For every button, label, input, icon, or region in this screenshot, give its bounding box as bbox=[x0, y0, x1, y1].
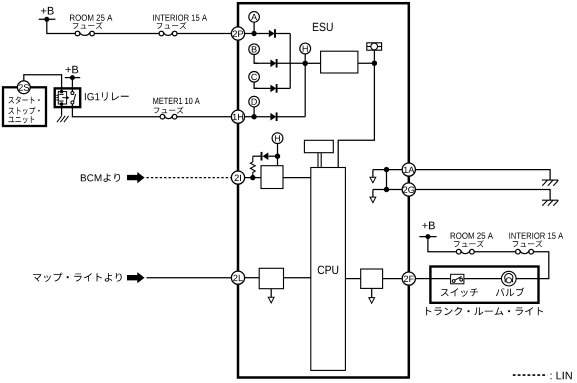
wire junction to input box bbox=[277, 156, 279, 166]
junction 1A/2G bbox=[384, 167, 389, 172]
input box (2I) bbox=[261, 166, 283, 189]
wire A stem bbox=[253, 22, 255, 31]
diode (to node H) bbox=[253, 152, 278, 161]
output box (2F) bbox=[361, 269, 383, 288]
connector 2I bbox=[231, 171, 244, 184]
wire H stem to junction bbox=[277, 144, 279, 157]
arrow to ground (1A row) bbox=[370, 170, 376, 183]
wire junction vertical bbox=[386, 170, 388, 190]
node C bbox=[249, 72, 260, 83]
start-stop unit box bbox=[3, 87, 46, 126]
relay IG1 contact bbox=[71, 92, 76, 105]
label BCM source bbox=[81, 173, 120, 181]
diode C bbox=[254, 84, 290, 93]
wire B stem bbox=[254, 55, 258, 64]
connector 1H bbox=[231, 110, 244, 123]
wire 2G to ground bbox=[415, 190, 550, 201]
wire 2G row (inside) bbox=[373, 189, 402, 191]
junction 2I node bbox=[250, 175, 255, 180]
power +B (IG1 relay) bbox=[65, 66, 80, 80]
junction below node H bbox=[275, 154, 280, 159]
wire 2I to junction bbox=[245, 177, 253, 179]
wire fuse METER1 to connector 1H bbox=[177, 116, 232, 118]
relay IG1 box bbox=[55, 88, 80, 107]
diode B bbox=[254, 59, 305, 68]
driver box (top) bbox=[321, 51, 358, 73]
wire junction H to driver box bbox=[305, 62, 320, 64]
wire output box to 2F bbox=[383, 278, 403, 280]
arrow from map light bbox=[127, 272, 145, 283]
wire fuse ROOM to fuse INTERIOR bbox=[94, 33, 159, 35]
junction on 2P wire bbox=[245, 31, 257, 36]
junction on 1H wire bbox=[245, 114, 257, 119]
wire relay contact to fuse METER1 bbox=[72, 104, 160, 117]
node H (middle) bbox=[272, 133, 283, 144]
wire +B to fuse ROOM (trunk) bbox=[428, 237, 457, 252]
wire +B to fuse ROOM bbox=[47, 19, 75, 33]
arrow from BCM bbox=[127, 172, 145, 183]
label trunk room light bbox=[426, 307, 543, 316]
regulator box above CPU bbox=[304, 140, 333, 152]
arrow to ground (2G row) bbox=[370, 190, 376, 203]
wire CPU to output box bbox=[345, 278, 360, 280]
wire 2S to IG1 relay coil bbox=[24, 75, 62, 92]
wire map light to 2L bbox=[147, 277, 232, 279]
wire switch to bulb bbox=[464, 278, 502, 280]
label IG1 relay bbox=[85, 92, 129, 100]
switch S1 bbox=[451, 274, 464, 284]
junction (lamp node) bbox=[372, 61, 377, 66]
power +B (trunk) bbox=[419, 222, 436, 240]
wire fuse INTERIOR to connector 2P bbox=[177, 33, 231, 35]
wire input box to CPU bbox=[284, 277, 311, 279]
wire bulb to trunk box right bbox=[516, 278, 538, 280]
resistor R1 bbox=[250, 156, 255, 177]
ESU box bbox=[238, 3, 409, 377]
legend LIN label bbox=[551, 372, 572, 380]
stem regulator to CPU bbox=[318, 153, 321, 168]
ground (relay coil) bbox=[57, 116, 69, 122]
wire trunk box left to switch bbox=[430, 278, 450, 280]
fuse INTERIOR 15 A (trunk) bbox=[509, 233, 563, 255]
connector 2G bbox=[402, 183, 415, 196]
CPU U1 bbox=[311, 168, 346, 371]
wire fuse to trunk box right bbox=[534, 252, 549, 279]
diode D bbox=[254, 112, 305, 121]
junction on 2G row bbox=[384, 187, 389, 192]
diode A bbox=[254, 29, 290, 38]
arrow to ground (2F box) bbox=[369, 288, 375, 303]
label switch bbox=[441, 288, 478, 296]
connector 2P bbox=[231, 27, 244, 40]
wire H stem bbox=[304, 54, 306, 63]
power +B (top left) bbox=[39, 7, 56, 22]
connector 2L bbox=[231, 271, 244, 284]
wire 2F to trunk box bbox=[415, 278, 430, 280]
arrow to ground (2L box) bbox=[268, 289, 274, 303]
wire fuse to fuse (trunk) bbox=[474, 251, 515, 253]
connector 2S bbox=[17, 81, 30, 94]
trunk room light box bbox=[430, 267, 538, 303]
node B bbox=[249, 44, 260, 55]
relay IG1 coil bbox=[56, 90, 69, 106]
indicator lamp symbol bbox=[367, 43, 382, 50]
wire coil to ground bbox=[61, 104, 63, 116]
connector 2F bbox=[402, 272, 415, 285]
wire 2L to input box bbox=[245, 277, 260, 279]
label bulb bbox=[496, 288, 525, 297]
input box (2L) bbox=[259, 268, 283, 288]
node D bbox=[249, 96, 260, 107]
connector 1A bbox=[402, 163, 415, 176]
wire D stem bbox=[253, 107, 255, 117]
wire junction down-left to CPU top bbox=[338, 63, 374, 167]
ground (1A) bbox=[542, 180, 558, 186]
fuse ROOM 25 A bbox=[70, 15, 112, 36]
wire C stem bbox=[254, 82, 258, 88]
legend LIN dashed sample bbox=[513, 374, 547, 376]
bulb L1 bbox=[502, 271, 517, 286]
wire input box to CPU bbox=[283, 177, 311, 179]
wire driver box to junction bbox=[358, 62, 375, 64]
wire lamp to junction bbox=[373, 50, 375, 63]
junction H bbox=[303, 61, 308, 66]
wire (LIN) dashed BCM to 2I bbox=[147, 177, 232, 179]
wire 1A to ground bbox=[415, 170, 550, 181]
ground (2G) bbox=[542, 200, 558, 206]
wire 1H-row up to node H junction bbox=[304, 63, 306, 116]
wire 2I junction to input box bbox=[253, 177, 261, 179]
node H (top) bbox=[300, 43, 311, 54]
node A bbox=[249, 12, 260, 23]
fuse ROOM 25 A (trunk) bbox=[451, 233, 493, 255]
fuse METER1 10 A bbox=[153, 98, 199, 119]
wire A-to-C vertical bbox=[289, 34, 291, 89]
label ESU bbox=[313, 23, 333, 32]
fuse INTERIOR 15 A bbox=[153, 15, 207, 36]
wire 1A row (inside) bbox=[373, 169, 402, 171]
label map light source bbox=[33, 273, 122, 282]
wire +B to relay contact bbox=[71, 78, 73, 92]
